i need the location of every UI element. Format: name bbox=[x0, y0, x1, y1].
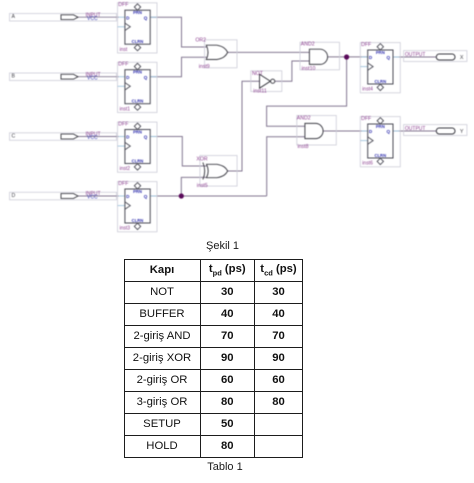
svg-text:DFF: DFF bbox=[118, 62, 128, 68]
svg-text:X: X bbox=[460, 55, 464, 61]
svg-text:inst5: inst5 bbox=[197, 183, 208, 189]
svg-text:CLRN: CLRN bbox=[374, 79, 386, 84]
svg-text:Y: Y bbox=[460, 129, 464, 135]
svg-text:AND2: AND2 bbox=[301, 42, 315, 48]
svg-text:inst2: inst2 bbox=[120, 166, 131, 172]
svg-text:PRN: PRN bbox=[133, 189, 142, 194]
svg-text:PRN: PRN bbox=[376, 50, 385, 55]
svg-text:PRN: PRN bbox=[376, 124, 385, 129]
svg-text:VCC: VCC bbox=[87, 16, 98, 22]
svg-text:DFF: DFF bbox=[118, 2, 128, 8]
svg-text:B: B bbox=[12, 74, 16, 80]
svg-text:OR2: OR2 bbox=[195, 38, 206, 44]
svg-text:C: C bbox=[12, 133, 16, 139]
svg-text:OUTPUT: OUTPUT bbox=[405, 126, 426, 132]
svg-text:CLRN: CLRN bbox=[374, 153, 386, 158]
svg-text:VCC: VCC bbox=[87, 135, 98, 141]
svg-text:inst4: inst4 bbox=[362, 87, 373, 93]
svg-text:CLRN: CLRN bbox=[132, 158, 144, 163]
svg-text:DFF: DFF bbox=[118, 121, 128, 127]
svg-text:Q: Q bbox=[144, 135, 148, 140]
svg-text:PRN: PRN bbox=[133, 130, 142, 135]
svg-text:Q: Q bbox=[144, 15, 148, 20]
svg-text:XOR: XOR bbox=[196, 156, 207, 162]
svg-text:DFF: DFF bbox=[361, 116, 371, 122]
svg-text:PRN: PRN bbox=[133, 70, 142, 75]
svg-text:inst9: inst9 bbox=[199, 64, 210, 70]
svg-text:D: D bbox=[12, 193, 16, 199]
svg-text:inst8: inst8 bbox=[298, 144, 309, 150]
svg-text:DFF: DFF bbox=[361, 42, 371, 48]
svg-text:VCC: VCC bbox=[87, 195, 98, 201]
svg-text:inst10: inst10 bbox=[302, 66, 316, 72]
svg-text:NOT: NOT bbox=[252, 71, 264, 77]
svg-text:OUTPUT: OUTPUT bbox=[405, 52, 426, 58]
svg-text:inst6: inst6 bbox=[362, 161, 373, 167]
svg-text:CLRN: CLRN bbox=[132, 218, 144, 223]
svg-text:CLRN: CLRN bbox=[132, 99, 144, 104]
svg-text:Q: Q bbox=[144, 194, 148, 199]
svg-text:inst: inst bbox=[120, 47, 128, 53]
svg-text:PRN: PRN bbox=[133, 10, 142, 15]
svg-text:VCC: VCC bbox=[87, 75, 98, 81]
svg-text:inst3: inst3 bbox=[120, 226, 131, 232]
svg-text:AND2: AND2 bbox=[297, 115, 311, 121]
svg-text:Q: Q bbox=[387, 129, 391, 134]
svg-text:A: A bbox=[12, 14, 16, 20]
svg-text:CLRN: CLRN bbox=[132, 39, 144, 44]
svg-text:inst1: inst1 bbox=[120, 106, 131, 112]
svg-text:Q: Q bbox=[387, 55, 391, 60]
svg-text:inst11: inst11 bbox=[253, 88, 267, 94]
svg-text:Q: Q bbox=[144, 75, 148, 80]
svg-text:DFF: DFF bbox=[118, 181, 128, 187]
